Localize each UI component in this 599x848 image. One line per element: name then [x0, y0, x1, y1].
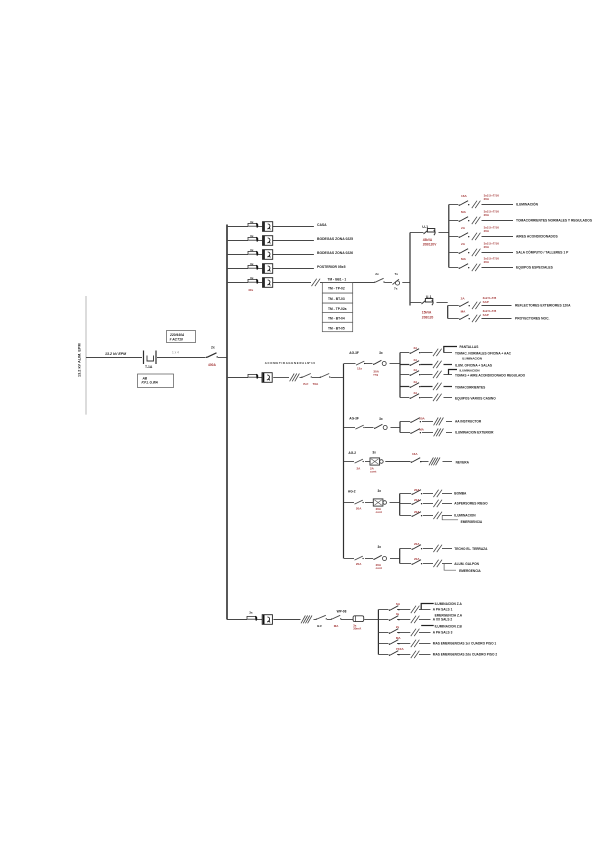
wire U2 ckt 1 [448, 305, 459, 307]
cable slashes U1-3 [472, 233, 481, 240]
wire F ckt3 elbow [421, 625, 434, 627]
breaker F-2 [389, 616, 400, 621]
breaker E-2 [412, 560, 423, 565]
wire cluster D feed [344, 502, 354, 504]
svg-text:2A: 2A [461, 297, 466, 301]
cable slashes D-2 [433, 500, 442, 507]
main distribution bus [226, 225, 228, 620]
switch B1 [355, 425, 364, 429]
cable slashes U1-2 [472, 217, 481, 224]
svg-text:TOMAC. NORMALES OFICINA + AAC: TOMAC. NORMALES OFICINA + AAC [455, 351, 512, 355]
contactor box C [370, 458, 383, 465]
switch SW6a [301, 374, 312, 378]
fuse F2 [248, 237, 258, 241]
svg-text:3x: 3x [250, 276, 254, 280]
wire A ckt 5 [400, 397, 409, 399]
breaker A-2 [410, 361, 421, 366]
svg-text:POSTERIOR 05x5: POSTERIOR 05x5 [317, 265, 346, 269]
svg-text:20A: 20A [484, 229, 490, 233]
svg-text:EQUIPOS VARIOS CASINO: EQUIPOS VARIOS CASINO [455, 396, 496, 400]
cable slashes branch 5 [312, 279, 321, 286]
svg-text:MA: MA [461, 210, 467, 214]
svg-text:2A: 2A [461, 226, 466, 230]
breaker box CB6 [262, 373, 272, 383]
wire A ckt 4 [400, 386, 409, 388]
svg-text:PROYECTORES NOC.: PROYECTORES NOC. [515, 317, 549, 321]
cable slashes D-3 [433, 512, 442, 519]
breaker A-5 [410, 394, 421, 399]
breaker box CB2 [263, 236, 273, 246]
cable slashes F-1 [411, 606, 420, 613]
breaker D-2 [412, 500, 423, 505]
bus panel B [399, 422, 401, 433]
switch fuse E2 [373, 555, 386, 560]
svg-text:3x: 3x [379, 351, 383, 355]
svg-text:20A: 20A [484, 245, 490, 249]
breaker E-1 [412, 545, 423, 550]
wire B ckt 1 [400, 421, 410, 423]
cable slashes B-2 [434, 429, 444, 437]
svg-text:20A: 20A [414, 488, 420, 492]
svg-text:7x: 7x [394, 287, 398, 291]
fuse F5 [248, 279, 258, 283]
bus panel A [399, 353, 401, 398]
svg-text:13.2 kV EPM: 13.2 kV EPM [105, 352, 127, 356]
svg-text:TM - BT-03: TM - BT-03 [328, 297, 345, 301]
svg-text:3x: 3x [378, 545, 382, 549]
cable slashes U1-5 [472, 264, 481, 271]
svg-text:NEVERA: NEVERA [456, 460, 470, 464]
fuse F3 [248, 251, 258, 255]
svg-text:3x: 3x [250, 220, 254, 224]
svg-text:208/120V: 208/120V [423, 243, 438, 247]
svg-text:20A: 20A [356, 507, 362, 511]
wire F ckt 2 [378, 619, 388, 621]
wire branch 5 [227, 282, 248, 284]
svg-text:MA: MA [461, 257, 467, 261]
wire to U-1 [410, 232, 424, 234]
svg-text:ILUMINACION Z.B: ILUMINACION Z.B [435, 625, 463, 629]
breaker U2-2 [459, 315, 470, 320]
svg-text:3x: 3x [250, 248, 254, 252]
wire cluster E feed [344, 558, 354, 560]
breaker A-3 [410, 371, 421, 376]
cable slashes U2-1 [472, 302, 481, 309]
cable slashes F-2 [411, 616, 420, 623]
svg-text:3x: 3x [372, 450, 376, 454]
bus panel U-1 [448, 205, 450, 268]
cable slashes F-3 [411, 629, 420, 636]
switch SW0 [206, 353, 218, 358]
svg-text:cont: cont [370, 470, 376, 474]
wire F ckt 3 [378, 632, 388, 634]
svg-text:20A: 20A [484, 197, 490, 201]
fuse F4 [248, 265, 258, 269]
cable slashes B-1 [434, 418, 444, 426]
svg-text:AG-2: AG-2 [348, 451, 356, 455]
svg-text:TM - TP-02: TM - TP-02 [328, 287, 345, 291]
svg-text:7x: 7x [395, 272, 399, 276]
fuse F6 [248, 374, 258, 378]
svg-text:20A: 20A [414, 542, 420, 546]
switch fuse SWF5 [393, 279, 400, 285]
wire U1 ckt 4 [449, 252, 459, 254]
breaker box CB4 [263, 264, 273, 274]
svg-text:TOMAS + AIRE ACONDICIONADO REG: TOMAS + AIRE ACONDICIONADO REGULADO [455, 373, 526, 377]
svg-text:AG-2: AG-2 [348, 490, 356, 494]
breaker F-5 [389, 651, 400, 656]
breaker box CB7 [262, 615, 272, 625]
svg-text:SALA CÓMPUTO / TALLERES 1 P: SALA CÓMPUTO / TALLERES 1 P [516, 250, 569, 255]
svg-text:TOMACORRIENTES: TOMACORRIENTES [455, 385, 485, 389]
svg-text:40x: 40x [248, 288, 253, 292]
cable slashes E-2 [433, 560, 442, 567]
cable slashes F-4 [411, 640, 420, 647]
svg-text:208/120: 208/120 [422, 315, 434, 319]
legend box panel [138, 374, 174, 388]
wire D ckt 1 [400, 493, 411, 495]
svg-text:3x: 3x [250, 234, 254, 238]
svg-text:T-1A: T-1A [145, 365, 153, 369]
wire F ckt 5 [378, 654, 388, 656]
svg-text:WP-08: WP-08 [337, 609, 347, 613]
cable slashes F-5 [411, 651, 420, 658]
svg-text:CASA: CASA [317, 223, 327, 227]
breaker U1-5 [459, 264, 470, 269]
wire D ckt 2 [400, 503, 411, 505]
svg-text:20A: 20A [414, 498, 420, 502]
svg-text:ILUMINACIÓN: ILUMINACIÓN [516, 202, 539, 207]
svg-text:SAP: SAP [483, 313, 489, 317]
svg-text:TM - BT-05: TM - BT-05 [328, 326, 345, 330]
svg-text:MAS EMERGENCIAS 1er CUADRO P: MAS EMERGENCIAS 1er CUADRO PISO 1 [433, 642, 497, 646]
cable slashes A-4 [433, 383, 442, 390]
svg-text:30mA: 30mA [353, 627, 362, 631]
breaker U1-1 [459, 201, 470, 206]
breaker A-4 [410, 383, 421, 388]
switch E1 [355, 556, 364, 560]
cable slashes U1-1 [472, 201, 481, 208]
wire B ckt 2 [400, 432, 410, 434]
disconnect S0 drawout [144, 351, 157, 365]
wire U1 ckt 1 [449, 204, 459, 206]
wire U2 ckt 2 [448, 318, 459, 320]
breaker A-1 [410, 349, 421, 354]
svg-text:cont: cont [376, 510, 382, 514]
svg-text:MA: MA [461, 310, 467, 314]
breaker box CB5 [263, 278, 273, 288]
switch SW5a [374, 278, 385, 283]
svg-text:# ACT10: # ACT10 [170, 338, 184, 342]
svg-text:76A: 76A [313, 382, 319, 386]
wire cluster C feed [344, 461, 354, 463]
subpanel bus [343, 364, 345, 559]
wire bottom feeder [227, 619, 247, 621]
breaker B-1 [410, 418, 421, 423]
transformer U-2 [422, 299, 434, 306]
wire A ckt 3 [400, 374, 409, 376]
cable slashes feeder [290, 374, 300, 382]
wire U1 ckt 2 [449, 220, 459, 222]
meter box M1 [167, 331, 196, 343]
wire U1 ckt 3 [449, 236, 459, 238]
svg-text:EQUIPOS ESPECIALES: EQUIPOS ESPECIALES [516, 266, 554, 270]
svg-text:A PH SALS 3: A PH SALS 3 [433, 631, 453, 635]
svg-text:SAP: SAP [483, 300, 489, 304]
wire F ckt1 elbow [421, 604, 434, 610]
switch fuse B2 [374, 424, 387, 429]
svg-text:20A: 20A [419, 416, 425, 420]
switch SW7a [316, 615, 327, 619]
cable slashes U2-2 [472, 315, 481, 322]
svg-text:20A: 20A [414, 557, 420, 561]
svg-text:EMERGENCIA: EMERGENCIA [459, 569, 481, 573]
wire U1 ckt 5 [449, 267, 459, 269]
wire main service [86, 357, 142, 359]
svg-text:2A: 2A [461, 242, 466, 246]
wire cluster B feed [344, 427, 355, 429]
svg-text:REFLECTORES EXTERIORES 120A: REFLECTORES EXTERIORES 120A [515, 304, 571, 308]
svg-text:AG-3F: AG-3F [349, 417, 359, 421]
cable slashes A-3 [433, 371, 442, 378]
wire riser [409, 233, 411, 306]
svg-text:TM - GB1 - 1: TM - GB1 - 1 [328, 278, 347, 282]
svg-text:P.P.L G.WA: P.P.L G.WA [142, 380, 159, 384]
svg-text:1 x 4: 1 x 4 [172, 351, 179, 355]
node utility source bus [85, 296, 87, 415]
switch D1 [355, 500, 364, 504]
breaker U1-4 [459, 249, 470, 254]
svg-text:MA: MA [334, 624, 339, 628]
bus panel bottom [377, 610, 379, 655]
fuse F7 [247, 616, 257, 620]
cable slashes bottom [301, 616, 312, 624]
breaker U1-2 [459, 217, 470, 222]
svg-text:B.F: B.F [317, 624, 322, 628]
svg-text:2x: 2x [211, 346, 215, 350]
table panel schedule [322, 283, 352, 332]
svg-text:AG-3F: AG-3F [349, 351, 359, 355]
svg-text:20A: 20A [484, 213, 490, 217]
wire D ckt 3 [400, 515, 411, 517]
svg-text:EMERGENCIA Z.A: EMERGENCIA Z.A [435, 613, 463, 617]
svg-text:ILUMINACION Z.A: ILUMINACION Z.A [435, 602, 463, 606]
svg-text:A PH SALS 1: A PH SALS 1 [433, 608, 453, 612]
svg-text:BOMBA: BOMBA [454, 492, 467, 496]
breaker box CB1 [263, 222, 273, 232]
breaker box CB3 [263, 250, 273, 260]
svg-text:ALUM. GALPON: ALUM. GALPON [454, 562, 479, 566]
wire A ckt 2 [400, 364, 409, 366]
svg-text:3x: 3x [379, 417, 383, 421]
svg-text:ILUMINACION EXTERIOR: ILUMINACION EXTERIOR [455, 431, 494, 435]
wire F ckt 4 [378, 643, 388, 645]
svg-text:AA INSTRUCTOR: AA INSTRUCTOR [455, 420, 482, 424]
svg-text:2x: 2x [375, 272, 379, 276]
bus panel D [399, 494, 401, 516]
svg-text:U-1: U-1 [426, 295, 432, 299]
svg-text:A C O M E T I D A G E N E R A: A C O M E T I D A G E N E R A L Nº 1 0 [265, 361, 316, 365]
wire A ckt 1 [400, 352, 409, 354]
breaker U2-1 [459, 302, 470, 307]
svg-text:ILUMINACION: ILUMINACION [460, 368, 480, 372]
svg-text:ILUMINACION: ILUMINACION [462, 357, 482, 361]
svg-text:3x: 3x [396, 612, 400, 616]
svg-text:ILUMINACION: ILUMINACION [454, 514, 476, 518]
svg-text:20A: 20A [356, 562, 362, 566]
svg-text:16A: 16A [412, 452, 418, 456]
svg-text:3x: 3x [378, 489, 382, 493]
breaker D-1 [412, 490, 423, 495]
switch SW7b [331, 615, 342, 619]
cable slashes A-1 [433, 349, 442, 356]
breaker F-1 [389, 606, 400, 611]
svg-text:45kVA: 45kVA [423, 238, 433, 242]
breaker B-2 [410, 429, 421, 434]
svg-text:20A: 20A [414, 510, 420, 514]
svg-text:13.2 kV ALIM. EPM: 13.2 kV ALIM. EPM [78, 343, 82, 377]
wire branch 1 [227, 226, 248, 228]
svg-text:MA: MA [419, 427, 424, 431]
breaker D-3 [412, 512, 423, 517]
wire to U-2 [410, 302, 422, 304]
wire branch 4 [227, 268, 248, 270]
breaker F-4 [389, 640, 400, 645]
wire branch 3 [227, 254, 248, 256]
svg-text:20A: 20A [484, 260, 490, 264]
svg-text:TOMACORRIENTES NORMALES Y REGU: TOMACORRIENTES NORMALES Y REGULADOS [516, 219, 593, 223]
wire E ckt 1 [400, 548, 411, 550]
svg-text:AIRES ACONDICIONADOS: AIRES ACONDICIONADOS [516, 235, 558, 239]
wire D ckt3 drop [442, 516, 458, 520]
wire feeder subpanel [227, 377, 248, 379]
wire A ckt3 elbow [449, 370, 458, 375]
svg-text:MAS EMERGENCIAS 2do CUADRO P: MAS EMERGENCIAS 2do CUADRO PISO 2 [433, 653, 498, 657]
cable slashes U1-4 [472, 249, 481, 256]
wire E ckt 2 [400, 563, 411, 565]
svg-text:400A: 400A [208, 363, 217, 367]
transformer U-1 [424, 229, 436, 236]
svg-text:U-1: U-1 [422, 225, 428, 229]
svg-text:TM - TP-02a: TM - TP-02a [328, 307, 347, 311]
cable slashes C [429, 458, 440, 466]
svg-text:cont: cont [376, 566, 382, 570]
bus panel U-2 [447, 306, 449, 319]
svg-text:PANTALLAS: PANTALLAS [460, 345, 479, 349]
bus panel E [399, 549, 401, 564]
svg-text:MA: MA [396, 636, 401, 640]
svg-text:BODEGAS ZONA 0225: BODEGAS ZONA 0225 [317, 237, 353, 241]
wire cluster A feed [344, 363, 356, 365]
svg-text:2x: 2x [396, 625, 400, 629]
svg-text:16A: 16A [461, 194, 467, 198]
fuse F1 [248, 223, 258, 227]
switch C1 [355, 459, 364, 463]
breaker C-3 [411, 458, 422, 463]
svg-text:BODEGAS ZONA 0226: BODEGAS ZONA 0226 [317, 251, 353, 255]
cable slashes E-1 [433, 545, 442, 552]
svg-text:A XX SALS 2: A XX SALS 2 [433, 618, 453, 622]
cable slashes A-2 [433, 361, 442, 368]
wire F ckt 1 [378, 609, 388, 611]
cable slashes A-5 [433, 394, 442, 401]
svg-text:TECHO EL. TERRAZA: TECHO EL. TERRAZA [454, 547, 488, 551]
svg-text:3x: 3x [250, 262, 254, 266]
svg-text:3x: 3x [249, 611, 253, 615]
svg-text:SA: SA [396, 602, 401, 606]
wire E ckt2 drop [444, 564, 456, 571]
svg-text:ILUM. OFICINA + SALAS: ILUM. OFICINA + SALAS [455, 363, 492, 367]
wire branch 2 [227, 240, 248, 242]
wire A ckt1 elbow [444, 347, 457, 353]
meter M2 [353, 616, 364, 622]
cable slashes D-1 [433, 490, 442, 497]
svg-text:ASPERSORES RIEGO: ASPERSORES RIEGO [454, 502, 488, 506]
breaker U1-3 [459, 233, 470, 238]
svg-text:EMERGENCIA: EMERGENCIA [461, 520, 483, 524]
switch A1 [356, 361, 365, 365]
svg-text:12x: 12x [357, 366, 362, 370]
switch SW6b [320, 374, 331, 378]
svg-text:220/440A: 220/440A [169, 333, 185, 337]
contactor D2 [373, 499, 386, 506]
switch fuse A2 [373, 360, 386, 365]
svg-text:reg: reg [373, 373, 378, 377]
svg-text:B.F: B.F [303, 382, 308, 386]
svg-text:15kVA: 15kVA [422, 311, 432, 315]
svg-text:2A: 2A [357, 466, 362, 470]
svg-text:7XXA: 7XXA [396, 647, 405, 651]
svg-text:TM - BT-04: TM - BT-04 [328, 316, 345, 320]
breaker F-3 [389, 629, 400, 634]
